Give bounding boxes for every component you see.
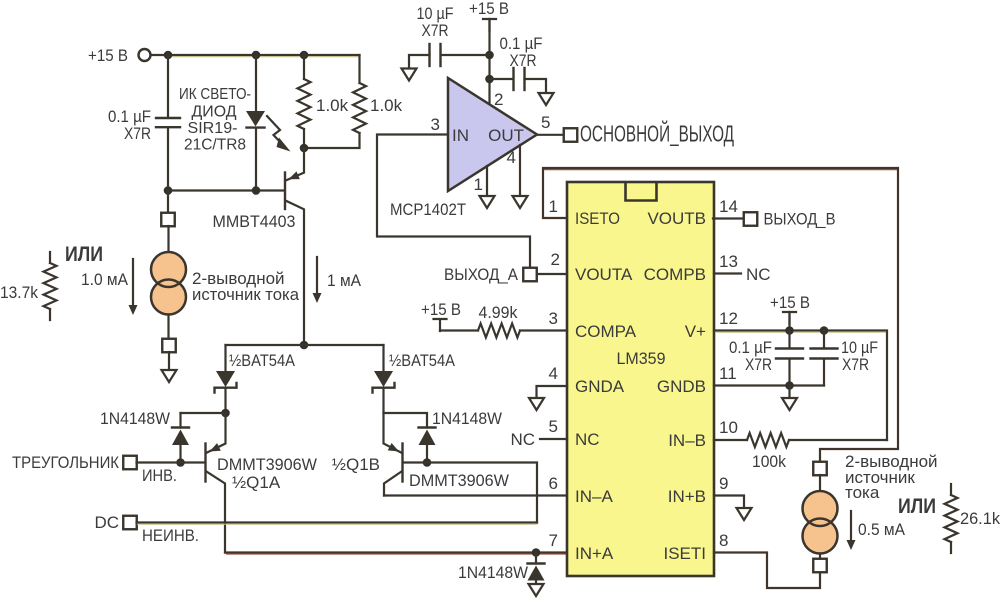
svg-text:IN+A: IN+A bbox=[575, 544, 614, 563]
svg-text:1N4148W: 1N4148W bbox=[100, 409, 170, 428]
terminal VOUT_B bbox=[744, 210, 836, 229]
terminal square CS2 top bbox=[813, 462, 827, 476]
svg-text:1N4148W: 1N4148W bbox=[458, 563, 528, 582]
svg-text:IN–B: IN–B bbox=[668, 431, 706, 450]
terminal VOUT_A bbox=[444, 265, 537, 284]
svg-text:DC: DC bbox=[94, 513, 119, 532]
svg-text:2: 2 bbox=[551, 250, 560, 269]
capacitor C1 0.1uF X7R bbox=[108, 55, 180, 191]
resistor R4 4.99k bbox=[440, 303, 567, 338]
resistor R6 26.1k (alternative) bbox=[945, 484, 1000, 553]
svg-text:X7R: X7R bbox=[422, 21, 449, 40]
svg-text:ИНВ.: ИНВ. bbox=[142, 466, 177, 485]
wire GNDB pin11 bbox=[714, 384, 824, 386]
diode D5 1N4148W to ground bbox=[458, 553, 545, 585]
ground (C2) bbox=[402, 69, 417, 81]
junction top rail / R1 bbox=[300, 51, 309, 60]
junction D4 / Q1B base bbox=[423, 458, 432, 467]
capacitor C4 0.1uF X7R bbox=[729, 331, 803, 386]
svg-text:DMMT3906W: DMMT3906W bbox=[217, 455, 317, 474]
label current source CS2 bbox=[845, 452, 938, 502]
svg-text:X7R: X7R bbox=[842, 355, 869, 374]
ground (MCP pin1) bbox=[480, 196, 495, 208]
transistor Q2 MMBT4403 PNP bbox=[213, 148, 305, 345]
svg-text:9: 9 bbox=[719, 474, 728, 493]
svg-text:14: 14 bbox=[719, 197, 738, 216]
svg-text:0.5 мА: 0.5 мА bbox=[858, 520, 906, 539]
terminal square (current source top) bbox=[161, 213, 175, 227]
svg-text:1 мА: 1 мА bbox=[327, 271, 362, 290]
svg-text:3: 3 bbox=[431, 115, 440, 134]
svg-text:IN+B: IN+B bbox=[668, 487, 706, 506]
junction D1 / Q1A emitter bbox=[221, 409, 230, 418]
svg-text:1: 1 bbox=[474, 175, 483, 194]
svg-text:ОСНОВНОЙ_ВЫХОД: ОСНОВНОЙ_ВЫХОД bbox=[580, 120, 734, 147]
svg-text:+15 В: +15 В bbox=[469, 0, 509, 18]
power +15V (COMPA) bbox=[421, 300, 461, 331]
junction R1/R2/Q2 emitter bbox=[300, 144, 309, 153]
terminal DC input bbox=[94, 513, 199, 545]
wire TRIANGLE to Q1A base bbox=[137, 461, 205, 463]
ground (MCP pin4) bbox=[513, 196, 528, 208]
junction V+ / C5 bbox=[820, 326, 829, 335]
svg-text:ИЛИ: ИЛИ bbox=[898, 495, 936, 518]
svg-text:3: 3 bbox=[549, 309, 558, 328]
wire Q1B base to DC riser bbox=[404, 463, 537, 523]
junction GNDB / ground stub bbox=[785, 381, 794, 398]
label OR (right) bbox=[898, 495, 936, 518]
op-amp driver U2 MCP1402T bbox=[390, 78, 537, 219]
svg-text:DMMT3906W: DMMT3906W bbox=[409, 471, 509, 490]
power +15V (MCP1402T) bbox=[469, 0, 509, 31]
wire ISETI pin8 to current source bottom (red net) bbox=[714, 553, 820, 589]
svg-text:ВЫХОД_А: ВЫХОД_А bbox=[444, 265, 519, 284]
pin numbers right side bbox=[719, 197, 738, 550]
pin 2 label (MCP) bbox=[494, 90, 503, 109]
transistor Q1A DMMT3906W PNP bbox=[206, 413, 318, 553]
NC pin5 stub bbox=[510, 430, 567, 449]
svg-text:VOUTA: VOUTA bbox=[575, 265, 633, 284]
label OR (left) bbox=[65, 243, 103, 266]
svg-text:тока: тока bbox=[845, 483, 880, 502]
wire Q1A collector to IN+A pin7 (red net) bbox=[225, 553, 567, 555]
resistor R5 100k on IN-B pin10 bbox=[714, 433, 887, 471]
junction LED/base rail bbox=[252, 186, 261, 195]
svg-text:1: 1 bbox=[549, 197, 558, 216]
svg-text:1.0k: 1.0k bbox=[316, 96, 349, 115]
wire +15V to MCP pin2 bbox=[488, 19, 490, 105]
MCP pin1 ground stub bbox=[474, 166, 487, 196]
svg-text:GNDB: GNDB bbox=[657, 377, 706, 396]
IR LED SIR19-21C/TR8 bbox=[179, 55, 291, 191]
svg-text:6: 6 bbox=[549, 474, 558, 493]
svg-text:100k: 100k bbox=[752, 452, 786, 471]
diode D3 1N4148W bbox=[100, 409, 189, 463]
svg-text:8: 8 bbox=[719, 531, 728, 550]
svg-text:2: 2 bbox=[494, 90, 503, 109]
LM359 left pin labels bbox=[575, 209, 637, 563]
junction D3 / Q1A base bbox=[176, 458, 185, 467]
svg-text:COMPB: COMPB bbox=[644, 265, 706, 284]
capacitor C2 10uF X7R bbox=[409, 4, 490, 69]
svg-text:MCP1402T: MCP1402T bbox=[390, 200, 466, 219]
wire VOUTA pin2 bbox=[537, 273, 567, 275]
svg-text:НЕИНВ.: НЕИНВ. bbox=[142, 526, 199, 545]
wire base rail y190 bbox=[168, 189, 284, 191]
svg-text:10: 10 bbox=[719, 418, 738, 437]
svg-text:½Q1B: ½Q1B bbox=[332, 455, 380, 474]
svg-text:+15 В: +15 В bbox=[88, 46, 128, 65]
svg-text:ИЛИ: ИЛИ bbox=[65, 243, 103, 266]
capacitor C5 10uF X7R bbox=[811, 331, 879, 386]
svg-text:26.1k: 26.1k bbox=[960, 509, 1000, 528]
wire to ground bbox=[168, 352, 170, 370]
svg-text:ИК СВЕТО-: ИК СВЕТО- bbox=[179, 86, 251, 103]
svg-text:SIR19-: SIR19- bbox=[188, 120, 238, 137]
svg-text:½BAT54A: ½BAT54A bbox=[389, 351, 456, 370]
wire DC to riser bbox=[137, 523, 538, 525]
svg-text:источник тока: источник тока bbox=[192, 285, 300, 304]
diode D4 1N4148W bbox=[384, 409, 503, 463]
wire D1 node to D3 bbox=[181, 412, 226, 414]
ground (below CS1) bbox=[162, 370, 177, 382]
junction pin2 / C2 bbox=[485, 51, 494, 60]
svg-text:7: 7 bbox=[549, 531, 558, 550]
resistor R2 1.0k bbox=[304, 55, 403, 148]
junction pin2 / C3 bbox=[485, 75, 494, 84]
svg-text:21C/TR8: 21C/TR8 bbox=[184, 137, 246, 154]
junction C1/base rail bbox=[164, 186, 173, 195]
COMPB pin13 NC stub bbox=[714, 265, 771, 284]
svg-text:13: 13 bbox=[719, 252, 738, 271]
svg-text:5: 5 bbox=[541, 113, 550, 132]
op-amp U1 LM359 body bbox=[567, 182, 714, 576]
svg-text:5: 5 bbox=[549, 417, 558, 436]
arrow 1.0 mA bbox=[81, 259, 138, 315]
svg-text:1.0k: 1.0k bbox=[370, 96, 403, 115]
svg-text:GNDA: GNDA bbox=[575, 377, 625, 396]
wire C1 node to terminal bbox=[167, 191, 169, 214]
wire Q1B collector to IN-A pin6 bbox=[384, 494, 567, 496]
wire ISETO pin1 loop to right current source (red net) bbox=[543, 168, 898, 462]
wire diode top rail y345 bbox=[226, 344, 384, 346]
wire terminal to current source bbox=[167, 226, 169, 253]
wire +15V top rail bbox=[151, 55, 360, 57]
svg-text:1N4148W: 1N4148W bbox=[432, 409, 502, 428]
diode D2 1/2 BAT54A bbox=[373, 345, 456, 413]
svg-text:X7R: X7R bbox=[745, 355, 772, 374]
arrow 0.5 mA bbox=[847, 511, 906, 550]
diode D1 1/2 BAT54A bbox=[215, 345, 296, 413]
svg-text:13.7k: 13.7k bbox=[0, 283, 38, 302]
MCP OUT pin5 wire bbox=[537, 113, 564, 135]
MCP pin4 ground stub bbox=[507, 145, 520, 196]
svg-text:4: 4 bbox=[507, 148, 516, 167]
wire MCP IN pin3 route to VOUTA node bbox=[377, 115, 530, 267]
svg-text:X7R: X7R bbox=[124, 124, 151, 143]
svg-text:V+: V+ bbox=[685, 322, 706, 341]
wire VOUTB pin14 bbox=[713, 217, 744, 219]
svg-text:1.0 мА: 1.0 мА bbox=[81, 270, 129, 289]
ground (below D5) bbox=[529, 584, 544, 596]
svg-text:½BAT54A: ½BAT54A bbox=[229, 351, 296, 370]
svg-text:4: 4 bbox=[549, 364, 558, 383]
capacitor C3 0.1uF X7R bbox=[490, 34, 547, 93]
ground (GNDA) bbox=[529, 398, 544, 410]
svg-text:+15 В: +15 В bbox=[770, 293, 810, 312]
svg-text:4.99k: 4.99k bbox=[479, 303, 518, 322]
current source CS2 0.5mA (2-terminal) bbox=[803, 475, 838, 559]
current source CS1 1.0mA (2-terminal) bbox=[151, 252, 186, 315]
svg-text:ISETI: ISETI bbox=[663, 544, 706, 563]
svg-text:ВЫХОД_B: ВЫХОД_B bbox=[764, 210, 836, 229]
terminal TRIANGLE input bbox=[12, 453, 177, 485]
terminal square CS2 bottom bbox=[813, 559, 827, 573]
pin numbers left side bbox=[549, 197, 560, 550]
transistor Q1B DMMT3906W PNP (mirrored) bbox=[332, 413, 509, 496]
arrow 1 mA bbox=[313, 257, 362, 303]
junction IN+A / D5 bbox=[532, 548, 541, 557]
IN+B pin9 ground stub bbox=[714, 496, 744, 509]
svg-text:IN: IN bbox=[452, 126, 469, 145]
node +15V supply terminal bbox=[88, 46, 151, 65]
LM359 right pin labels bbox=[644, 209, 706, 563]
svg-text:12: 12 bbox=[719, 309, 738, 328]
junction top rail / LED bbox=[252, 51, 261, 60]
svg-text:X7R: X7R bbox=[510, 51, 537, 70]
svg-text:ISETO: ISETO bbox=[575, 209, 620, 228]
ground (C3) bbox=[539, 93, 554, 105]
terminal square (current source bottom) bbox=[162, 339, 176, 353]
svg-text:ДИОД: ДИОД bbox=[192, 104, 237, 121]
resistor R3 13.7k (alternative) bbox=[0, 252, 57, 320]
GNDA pin4 stub bbox=[537, 386, 568, 398]
svg-text:IN–A: IN–A bbox=[575, 487, 613, 506]
label current source CS1 bbox=[192, 269, 300, 304]
svg-text:½Q1A: ½Q1A bbox=[232, 473, 281, 492]
wire current source to terminal 2 bbox=[167, 315, 169, 340]
svg-text:VOUTB: VOUTB bbox=[647, 209, 706, 228]
wire V+ pin12 rail bbox=[714, 331, 887, 441]
junction V+ / C4 bbox=[785, 326, 794, 335]
junction Q2 collector / diode rail bbox=[300, 341, 309, 350]
svg-text:NC: NC bbox=[510, 430, 535, 449]
power +15V (V+) bbox=[770, 293, 810, 331]
svg-text:MMBT4403: MMBT4403 bbox=[213, 212, 296, 231]
svg-text:11: 11 bbox=[719, 364, 737, 383]
svg-text:LM359: LM359 bbox=[617, 349, 666, 368]
ground (IN+B) bbox=[737, 508, 752, 520]
svg-text:OUT: OUT bbox=[488, 126, 524, 145]
terminal MAIN OUTPUT bbox=[564, 120, 735, 147]
svg-text:NC: NC bbox=[746, 265, 771, 284]
junction top rail / C1 bbox=[164, 51, 173, 60]
svg-text:NC: NC bbox=[575, 430, 600, 449]
svg-text:COMPA: COMPA bbox=[575, 322, 637, 341]
svg-text:ТРЕУГОЛЬНИК: ТРЕУГОЛЬНИК bbox=[12, 453, 119, 472]
resistor R1 1.0k bbox=[298, 55, 349, 148]
svg-text:+15 В: +15 В bbox=[421, 300, 461, 319]
ground (GNDB) bbox=[782, 398, 797, 410]
